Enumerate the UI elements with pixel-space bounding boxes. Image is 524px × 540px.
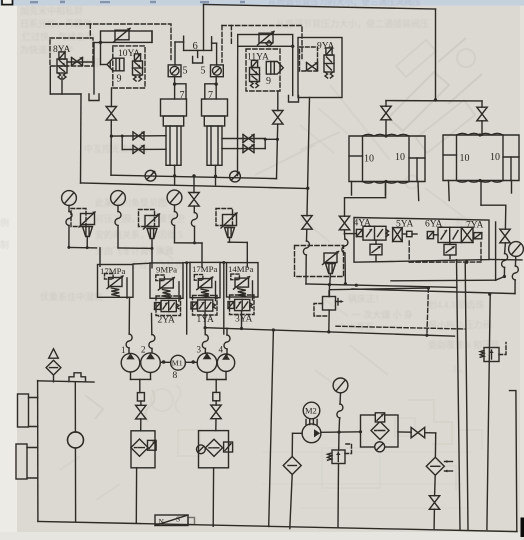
wire: right long drop v3 — [487, 294, 490, 529]
wire: loop left leg down to bus A — [237, 46, 239, 175]
wire: loop right leg down to tank — [292, 46, 294, 95]
pump 1 — [121, 353, 140, 372]
circulation pump — [302, 424, 321, 443]
small diamond under relief — [266, 41, 272, 47]
check valve on bus A left — [145, 170, 156, 181]
svg-text:3YA: 3YA — [235, 315, 253, 325]
svg-text:11YA: 11YA — [247, 53, 269, 63]
node — [99, 41, 102, 44]
motor M1 — [171, 355, 186, 370]
check under 6YA — [444, 244, 456, 255]
wire: H1 line — [391, 279, 496, 282]
collector line A — [69, 246, 97, 249]
tank bottom main line — [38, 521, 517, 531]
svg-text:5: 5 — [201, 66, 206, 77]
svg-text:例: 例 — [0, 217, 9, 228]
wire: right long drop v2 — [465, 262, 468, 529]
svg-text:3 。: 3 。 — [452, 364, 468, 374]
magnetic separator — [155, 515, 195, 526]
tank left wall — [37, 381, 39, 522]
wire: 8YA out to drain leg — [67, 61, 94, 63]
svg-text:3: 3 — [197, 345, 202, 355]
svg-text:M1: M1 — [172, 359, 183, 368]
cylinder 7 (right) — [202, 99, 228, 165]
enclosure box — [298, 38, 342, 98]
6YA/7YA valve — [427, 227, 482, 242]
wire: 4YA branch — [344, 198, 346, 217]
shaft — [161, 361, 171, 363]
suction P1/P2 — [130, 372, 132, 379]
prefill valve 5 (left) — [168, 65, 181, 77]
svg-text:1: 1 — [121, 345, 126, 355]
svg-text:辆床正！: 辆床正！ — [348, 293, 384, 304]
wire: valve5R to cylinder 7R — [215, 77, 217, 99]
svg-text:6YA: 6YA — [425, 219, 443, 229]
svg-text:10: 10 — [364, 154, 374, 165]
wire: right long drop v1 — [457, 260, 461, 530]
wire: left port of manifold to valve 5 — [175, 41, 184, 43]
svg-text:10YA: 10YA — [118, 49, 140, 59]
svg-text:10: 10 — [460, 153, 470, 164]
pump 3 — [197, 353, 217, 373]
pump 2 — [141, 353, 161, 373]
relief with W spring — [338, 432, 340, 450]
wire: P1 riser — [128, 298, 130, 335]
wire: P2 riser — [151, 314, 153, 335]
filler cap — [69, 373, 86, 382]
ground/tank under manifold 6 — [197, 50, 199, 57]
wire: 4YA feed continues to alpha — [344, 234, 346, 239]
svg-text:17MPa: 17MPa — [192, 264, 218, 274]
setting box 17MPa #2 — [190, 262, 220, 297]
svg-text:7: 7 — [180, 90, 185, 101]
svg-text:M2: M2 — [305, 406, 317, 416]
solenoid valve 10YA — [133, 54, 143, 81]
relief valve on loop — [258, 31, 275, 45]
svg-text:7YA: 7YA — [466, 221, 484, 231]
cartridge valve 9 (left) — [107, 58, 124, 71]
svg-text:9MPa: 9MPa — [156, 265, 177, 275]
wire: beta line — [330, 288, 429, 290]
setting box 17MPa #1 — [98, 265, 134, 298]
wire: P3 riser — [204, 313, 206, 335]
svg-text:1YA: 1YA — [197, 315, 215, 325]
svg-text:7: 7 — [208, 90, 213, 101]
drain valve under bus A — [193, 176, 195, 193]
throttle-check pair left cylinder — [111, 135, 166, 137]
svg-text:8YA: 8YA — [53, 45, 71, 55]
setting box 9MPa — [150, 263, 183, 298]
svg-text:伏重系住中湿氮: 伏重系住中湿氮 — [40, 291, 103, 302]
dashed: drain delta — [336, 326, 465, 329]
wire: loop bottom node — [291, 45, 294, 48]
solenoid valve 1YA — [193, 296, 218, 316]
svg-text:加克米中相私财: 加克米中相私财 — [20, 5, 83, 16]
svg-text:仁过快，气候自动: 仁过快，气候自动 — [22, 31, 94, 42]
solenoid valve 9YA — [324, 48, 334, 78]
relief assembly D above reducing valve — [295, 246, 344, 277]
wire: loop to cartridge 9L — [100, 42, 102, 64]
block 10 (right) — [443, 133, 519, 193]
wire: drain leg to tank — [93, 43, 95, 95]
wire: right feed drop — [435, 9, 437, 100]
svg-text:2: 2 — [141, 345, 146, 355]
dashed enclosure 8YA — [50, 38, 93, 66]
wire: valve5L to cylinder 7L — [174, 77, 176, 99]
valve feed block2 — [481, 101, 483, 107]
dashed drain under battery — [409, 241, 481, 262]
duplex return filter — [361, 415, 399, 447]
svg-text:一 次大爆 小 身: 一 次大爆 小 身 — [352, 309, 413, 320]
wire: feed header right — [480, 181, 482, 206]
throttle after 8YA — [72, 57, 83, 65]
svg-text:14MPa: 14MPa — [228, 264, 254, 274]
svg-text:9: 9 — [266, 76, 271, 87]
svg-text:9YA: 9YA — [317, 42, 335, 52]
node: feed tee — [434, 98, 437, 101]
svg-text:划4.4.3 是齿珠: 划4.4.3 是齿珠 — [428, 299, 484, 310]
suction filter unit left — [131, 431, 156, 468]
relief loop box around valve 9L — [101, 31, 153, 42]
pressure reducing valve — [328, 285, 330, 297]
svg-text:17MPa: 17MPa — [100, 266, 126, 276]
dashed pilot line top right — [222, 26, 302, 61]
delivery line — [321, 431, 361, 434]
pilot relief B dashed box — [139, 210, 155, 227]
pressure switch with spring — [480, 348, 499, 362]
level indicator — [18, 394, 29, 427]
motor M2 — [303, 402, 320, 419]
dashed pilot line across top — [46, 24, 171, 62]
rail connectors between setting boxes — [133, 262, 150, 265]
tank top — [38, 381, 94, 382]
wire: ram rods down to bus — [174, 165, 176, 184]
prefill valve 5 (right) — [211, 65, 224, 77]
wire: feed header left (to 4YA) — [385, 182, 387, 198]
dashed enclosure 10YA — [113, 46, 145, 88]
suction P3/P4 — [206, 373, 208, 380]
throttle-check pair right cylinder — [222, 138, 265, 140]
relief valve with W spring — [328, 450, 346, 464]
wire: bus B (return line) — [81, 183, 309, 189]
wire: tank return long drop — [269, 330, 274, 527]
svg-text:4YA: 4YA — [354, 219, 372, 229]
wire: 9YA box drop to pilot line — [307, 98, 310, 216]
level sight circle — [74, 382, 76, 521]
shutoff on pilot drop — [302, 216, 312, 230]
setting box 14MPa — [227, 263, 259, 297]
right border hook — [510, 391, 517, 532]
svg-text:8: 8 — [173, 371, 178, 381]
dashed: pilot drop to drain header — [427, 288, 429, 335]
gauge top right — [509, 242, 524, 257]
pump 4 — [217, 354, 234, 371]
wire: right port of manifold to valve 5 — [212, 42, 217, 44]
svg-text:从面调节背压力大小，使二通插装阀压: 从面调节背压力大小，使二通插装阀压 — [276, 18, 429, 29]
coupling — [306, 420, 317, 425]
svg-text:2YA: 2YA — [158, 316, 176, 326]
throttle in 9YA box — [300, 47, 318, 71]
gauge 3 — [167, 190, 182, 205]
wire: top feed horizontal — [204, 5, 436, 10]
check valve on bus A right — [230, 171, 241, 182]
pilot dash rects and internal risers in setting boxes — [105, 274, 240, 281]
suction via strainer — [293, 432, 303, 434]
pilot relief A dashed box — [71, 209, 86, 227]
relief valve on loop — [114, 28, 131, 42]
wire: 3YA riser — [241, 312, 243, 329]
svg-text:9: 9 — [117, 74, 122, 85]
svg-text:10: 10 — [490, 152, 500, 163]
solenoid valve 11YA — [250, 60, 260, 87]
gauge over pump 5 — [333, 378, 348, 393]
cartridge valve 9 (right) — [266, 62, 283, 75]
wire: 8YA left L-drain down to bus B — [49, 67, 51, 95]
breather — [53, 375, 55, 382]
svg-text:此某泵川魚獎贝图: 此某泵川魚獎贝图 — [95, 197, 167, 208]
solenoid valve 3YA — [230, 295, 255, 315]
svg-text:5: 5 — [183, 66, 188, 77]
check under 4YA — [370, 244, 382, 255]
svg-text:安的两关系，如因循 5: 安的两关系，如因循 5 — [95, 229, 183, 240]
cylinder 7 (left) — [161, 99, 187, 165]
gauge 2 — [111, 191, 126, 206]
wire: gamma line — [352, 289, 515, 294]
svg-text:4: 4 — [219, 345, 224, 355]
wire: feed down to manifold 6 — [203, 5, 205, 51]
wire: bus A (prefill line) — [111, 175, 277, 178]
wire: alpha line — [306, 284, 457, 287]
duplex filter block — [361, 413, 399, 452]
wire: P4 riser — [226, 328, 228, 335]
node: manifold 6 bracket — [183, 36, 185, 50]
svg-text:10: 10 — [395, 152, 405, 163]
svg-text:N: N — [159, 517, 165, 526]
heat exchanger — [426, 457, 444, 475]
suction filter unit right — [197, 431, 233, 468]
back-pressure branch from 11YA box — [277, 91, 279, 111]
gauge 1 — [62, 191, 77, 206]
wire: main drain header D — [206, 328, 455, 337]
wire: 10YA drain down to bus A — [110, 88, 112, 107]
block 10 (left) — [349, 134, 425, 195]
solenoid valve 8YA — [57, 52, 67, 79]
4YA valve — [356, 226, 388, 240]
solenoid valve 2YA — [156, 296, 181, 316]
wire: distribution to accumulator blocks — [386, 100, 482, 102]
pilot relief C dashed box — [216, 209, 233, 226]
valve feed block1 — [385, 101, 387, 107]
wire: right branch valve — [500, 229, 510, 243]
cooler branch — [398, 431, 411, 433]
svg-text:6: 6 — [193, 41, 198, 52]
wire: block rods to valve battery — [417, 182, 420, 201]
5YA pilot valve — [393, 228, 417, 242]
svg-text:5YA: 5YA — [396, 220, 414, 230]
svg-text:S: S — [176, 515, 180, 524]
svg-text:制: 制 — [0, 239, 9, 250]
wire: loop right side down — [151, 31, 153, 42]
dashed enclosure 11YA — [246, 49, 280, 91]
relief loop box 11YA — [238, 35, 293, 47]
node on bus A — [192, 174, 195, 177]
